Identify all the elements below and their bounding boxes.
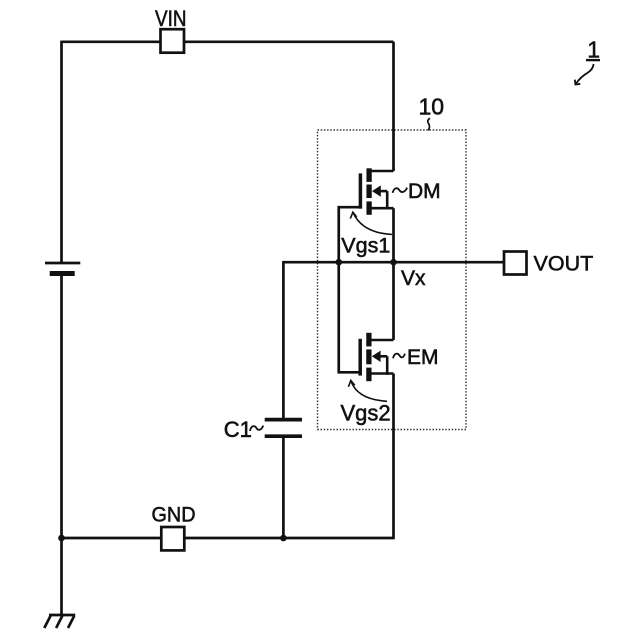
EM gate bar: [358, 339, 362, 376]
EM channel segment 3: [366, 368, 371, 382]
wire EM source down: [392, 374, 395, 540]
EM drain stub: [369, 339, 394, 342]
leader squiggle for label 10: [428, 118, 430, 130]
ground symbol: [44, 615, 75, 628]
battery cell: [45, 263, 80, 274]
svg-text:EM: EM: [407, 346, 439, 369]
svg-text:10: 10: [419, 94, 445, 120]
C1 top plate: [265, 418, 302, 422]
node Vgs1 junction dot: [335, 259, 342, 266]
node C1-GND junction dot: [280, 535, 287, 542]
transistor DM (depletion MOSFET): [360, 168, 393, 215]
wire C1 top: [282, 261, 285, 420]
transistor EM (enhancement MOSFET): [360, 333, 393, 381]
svg-text:VIN: VIN: [155, 6, 187, 31]
battery long plate: [45, 262, 80, 265]
wire Vx node to EM drain: [392, 262, 395, 340]
wire right rail top: [392, 42, 395, 171]
wire DM source to Vx node: [392, 208, 395, 262]
terminal VOUT box: [504, 252, 527, 275]
wire top VIN rail: [62, 40, 394, 43]
EM source stub: [369, 372, 394, 375]
terminal VIN box: [161, 29, 185, 53]
svg-text:1: 1: [587, 37, 600, 63]
wire DM gate connection: [339, 207, 361, 262]
capacitor C1 plates: [265, 420, 302, 437]
squiggle before DM: [393, 188, 408, 193]
svg-text:Vgs2: Vgs2: [341, 401, 391, 426]
wire left rail upper: [60, 41, 63, 263]
DM gate bar: [359, 173, 363, 208]
squiggle before EM: [393, 354, 405, 359]
DM channel segment 3: [366, 201, 371, 214]
DM body-source link: [386, 191, 389, 209]
EM channel segment 2: [366, 349, 371, 364]
wire Vx rail: [283, 261, 504, 264]
DM channel segment 1: [366, 168, 371, 182]
wire C1 bottom: [282, 436, 285, 538]
leader arrow for label 1: [576, 64, 593, 83]
EM channel segment 1: [366, 333, 371, 347]
node GND-left junction dot: [58, 535, 65, 542]
dashed block 10 boundary: [318, 130, 467, 430]
wire left rail lower: [60, 274, 63, 616]
DM channel segment 2: [366, 185, 371, 199]
C1 bottom plate: [265, 434, 302, 438]
DM drain stub: [369, 170, 393, 173]
svg-text:C1: C1: [224, 417, 252, 442]
svg-text:Vx: Vx: [401, 267, 426, 290]
svg-text:Vgs1: Vgs1: [341, 234, 390, 258]
svg-text:DM: DM: [408, 180, 441, 203]
EM body-source link: [386, 356, 389, 375]
Vgs2 curved arrow: [351, 381, 387, 402]
DM source stub: [369, 207, 393, 210]
wire GND rail: [62, 537, 394, 540]
wire EM gate connection: [339, 262, 360, 372]
battery short plate: [50, 271, 75, 276]
svg-text:VOUT: VOUT: [534, 252, 594, 276]
squiggle after C1: [250, 426, 263, 431]
svg-text:GND: GND: [152, 503, 196, 527]
Vgs1 curved arrow: [353, 212, 392, 234]
terminal GND box: [161, 527, 184, 550]
EM body arrow: [372, 351, 381, 362]
node Vx junction dot: [390, 259, 397, 266]
DM body arrow: [372, 185, 381, 196]
